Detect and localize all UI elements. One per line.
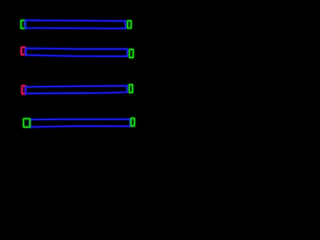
- pad P4b (right terminal, row 4): [131, 118, 135, 126]
- wire sketch overstroke (row 4 bottom-left): [31, 126, 66, 127]
- pad P3a (left terminal, row 3): [22, 86, 25, 94]
- wire sketch overstroke (row 2 bottom): [26, 55, 95, 57]
- resistor R3 body: [26, 86, 127, 94]
- wire sketch overstroke (row 1 bottom-left): [26, 27, 60, 30]
- pad P2b (right terminal, row 2): [129, 49, 133, 57]
- resistor R2 body: [26, 48, 128, 56]
- resistor R1 body: [25, 20, 125, 28]
- pad P3b (right terminal, row 3): [129, 85, 132, 93]
- pad P2a (left terminal, row 2): [21, 47, 25, 55]
- resistor R4 body: [30, 119, 130, 127]
- pad P4a (left terminal, row 4): [24, 119, 30, 127]
- wire sketch overstroke (row 2 top-left): [26, 49, 58, 50]
- wire sketch overstroke (row 3 bottom-right): [95, 92, 127, 95]
- pad P1a (left terminal, row 1): [21, 20, 25, 28]
- pad P1b (right terminal, row 1): [128, 21, 132, 29]
